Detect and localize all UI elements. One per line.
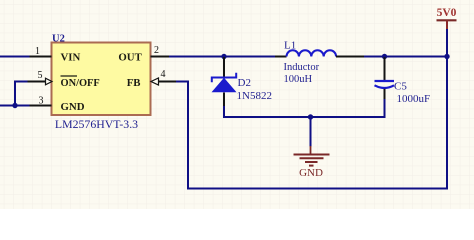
wire diode anode to bottom rail: [223, 106, 225, 118]
pin 5 (ON/OFF) with input arrow: [28, 70, 53, 85]
svg-text:FB: FB: [127, 77, 141, 89]
svg-text:4: 4: [161, 69, 166, 80]
U2 pin name OUT: [118, 52, 142, 64]
U2 designator label: [52, 34, 65, 45]
wire GND tap down: [310, 117, 312, 147]
op-amp U2 body (regulator LM2576HVT-3.3): [52, 43, 151, 116]
wire ON/OFF tie-down (pin 5 to pin 3 net): [15, 82, 28, 106]
ground GND symbol: [294, 146, 330, 179]
L1 comment label Inductor: [284, 62, 320, 73]
svg-text:100uH: 100uH: [284, 74, 313, 85]
pin 4 (FB) with input arrow: [151, 69, 176, 85]
U2 pin name ON/OFF (ON overlined): [61, 76, 100, 89]
node junction at 5V0 rail: [444, 54, 449, 59]
svg-text:U2: U2: [52, 34, 65, 45]
wire VIN net (left to pin 1): [0, 56, 30, 58]
pin 3 (GND): [30, 96, 52, 107]
pin 1 (VIN): [30, 46, 52, 57]
svg-text:1: 1: [35, 46, 40, 57]
svg-text:1N5822: 1N5822: [237, 90, 272, 102]
svg-text:LM2576HVT-3.3: LM2576HVT-3.3: [55, 117, 138, 131]
D2 value label 1N5822: [237, 90, 272, 102]
wire FB feedback loop: [176, 57, 447, 189]
wire OUT to diode node: [169, 56, 224, 58]
svg-text:2: 2: [154, 45, 159, 56]
node junction at diode cathode: [221, 54, 226, 59]
C5 value label 1000uF: [397, 93, 431, 105]
svg-text:C5: C5: [394, 81, 407, 93]
U2 value label LM2576HVT-3.3: [55, 117, 138, 131]
wire diode node to inductor: [224, 56, 275, 58]
L1 value label 100uH: [284, 74, 313, 85]
svg-text:Inductor: Inductor: [284, 62, 320, 73]
svg-text:1000uF: 1000uF: [397, 93, 431, 105]
svg-text:OUT: OUT: [118, 52, 142, 64]
capacitor C5 (1000uF polarized): [375, 57, 395, 100]
wire GND net left (to pin 3): [0, 105, 30, 107]
svg-text:D2: D2: [238, 77, 251, 89]
svg-text:5V0: 5V0: [437, 7, 457, 19]
node junction pin5/pin3: [12, 103, 17, 108]
wire inductor to C5 node: [364, 56, 385, 58]
node junction GND tap: [308, 114, 313, 119]
D2 designator label: [238, 77, 251, 89]
svg-text:GND: GND: [61, 101, 85, 113]
U2 pin name GND: [61, 101, 85, 113]
C5 designator label: [394, 81, 407, 93]
wire 5V0 port to rail node: [446, 29, 448, 57]
wire C5 node to 5V0 node: [385, 56, 448, 58]
svg-text:5: 5: [38, 70, 43, 81]
diode D2 (Schottky 1N5822): [212, 57, 237, 107]
inductor L1: [275, 50, 364, 56]
svg-text:ON/OFF: ON/OFF: [61, 78, 100, 89]
svg-text:3: 3: [39, 96, 44, 107]
wire bottom rail (diode anode to C5 bottom): [223, 116, 386, 118]
pin 2 (OUT): [151, 45, 170, 57]
svg-text:GND: GND: [299, 167, 323, 179]
U2 pin name FB: [127, 77, 141, 89]
U2 pin name VIN: [61, 52, 81, 64]
L1 designator label: [284, 40, 296, 52]
power port 5V0: [437, 7, 457, 30]
svg-text:L1: L1: [284, 40, 296, 52]
node junction at C5 top: [382, 54, 387, 59]
svg-text:VIN: VIN: [61, 52, 81, 64]
wire C5 bottom to bottom rail: [384, 99, 386, 118]
